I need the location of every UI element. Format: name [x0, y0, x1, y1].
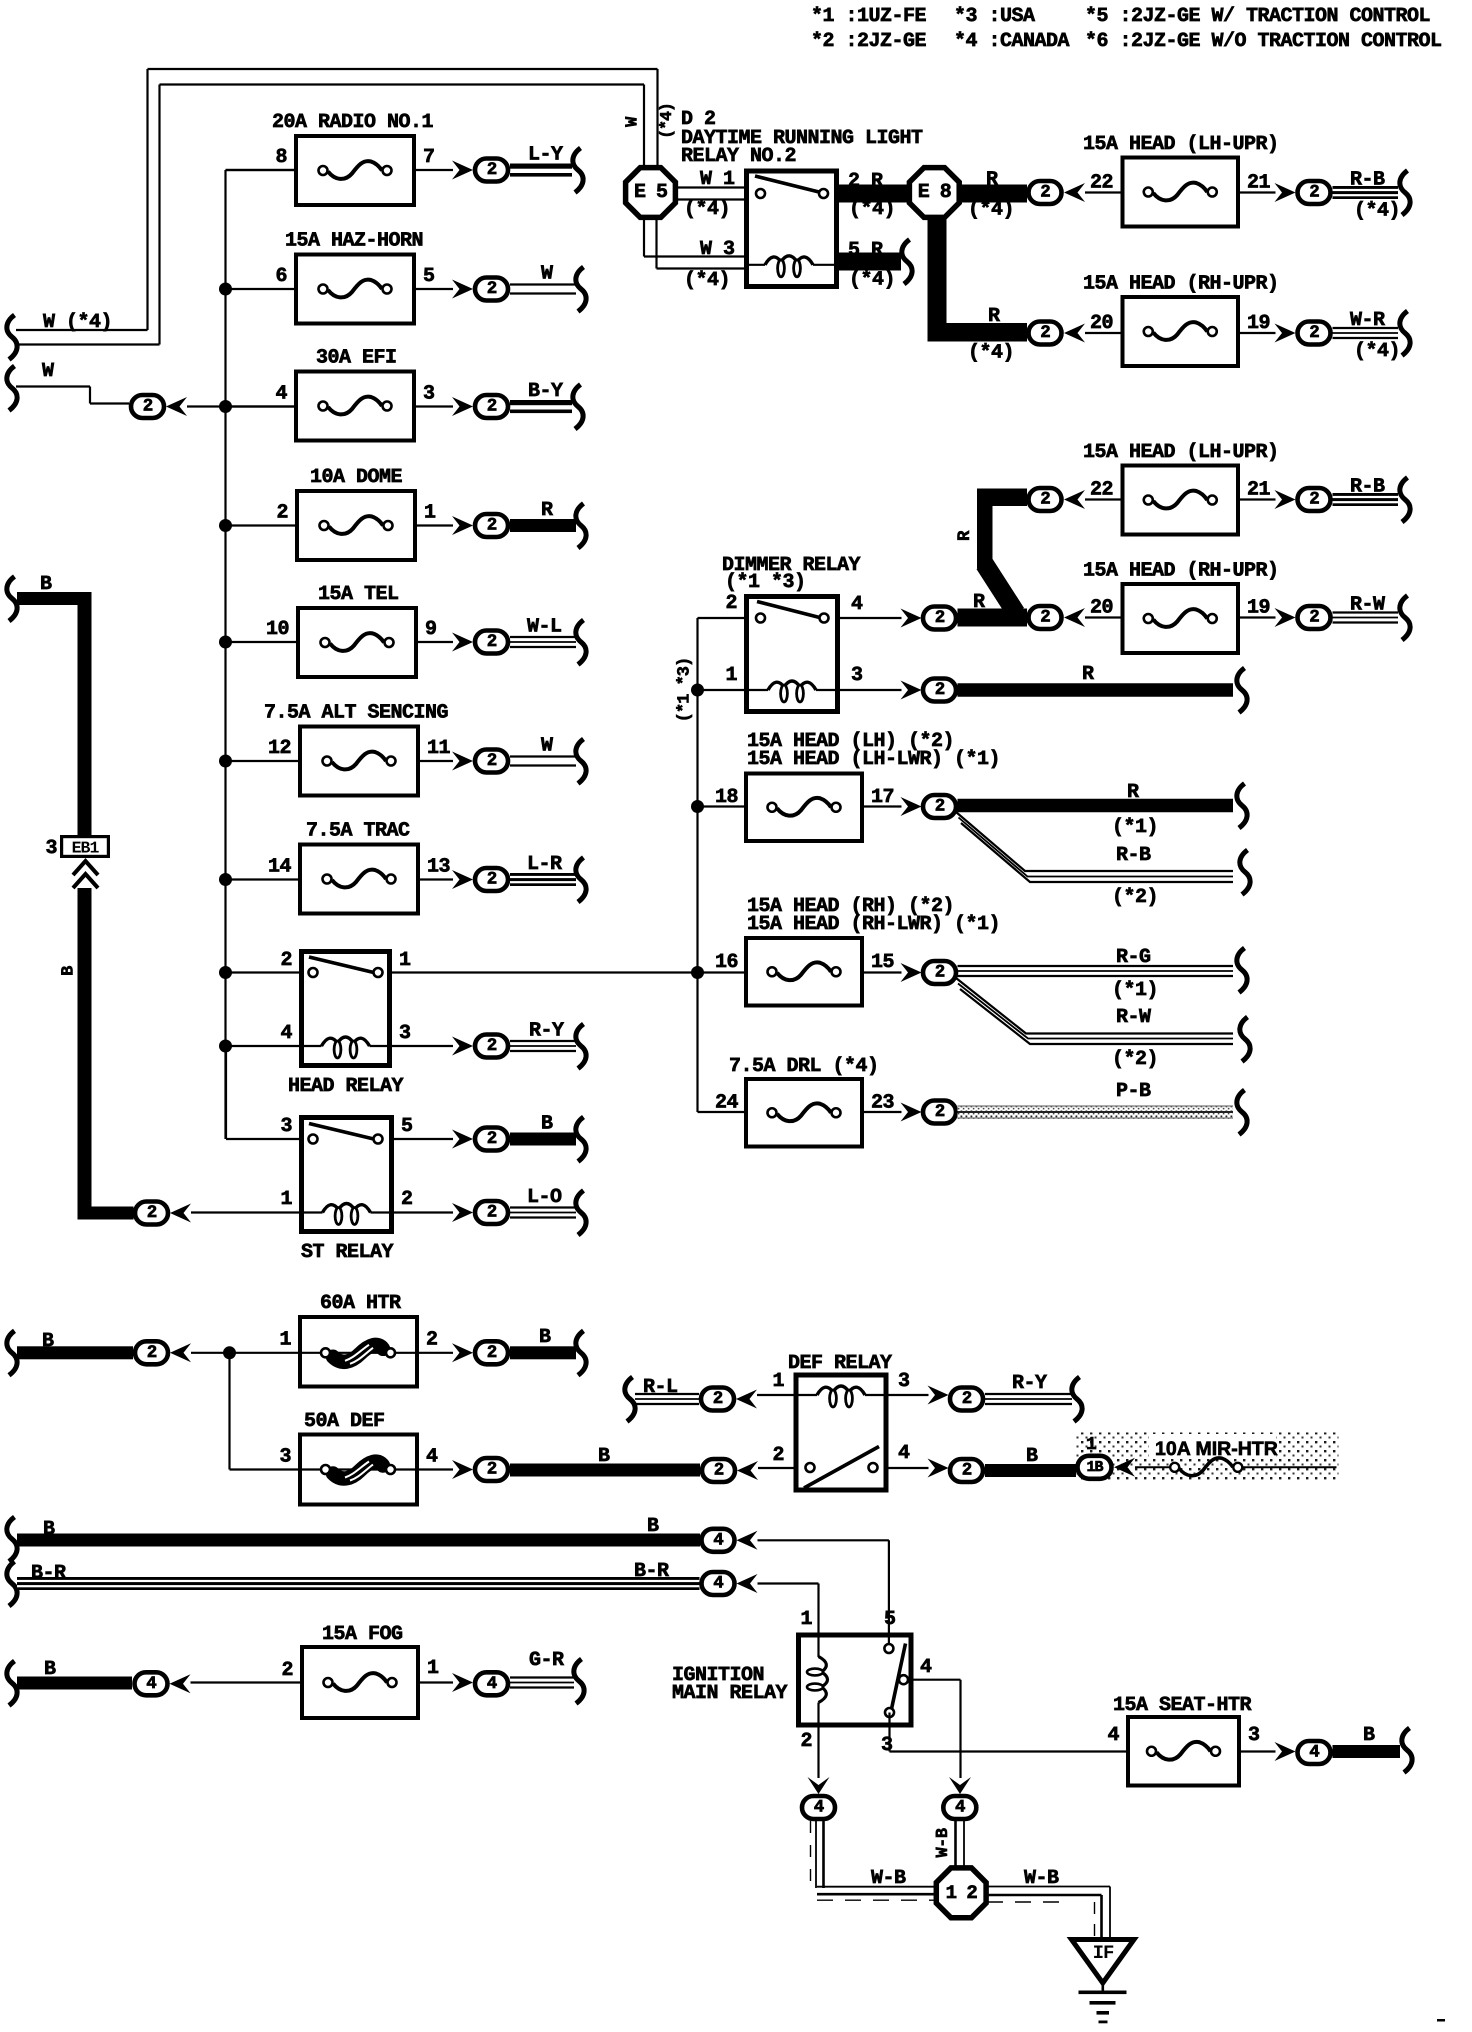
svg-text:(*4): (*4)	[1354, 340, 1400, 363]
svg-text:3: 3	[45, 837, 57, 860]
vertical branch wire (*1 *3)	[696, 618, 698, 1112]
svg-text:3: 3	[851, 664, 863, 687]
half-brace end of P-B wire	[1237, 1090, 1247, 1135]
svg-text:30A EFI: 30A EFI	[316, 347, 397, 370]
relay DAYTIME RUNNING LIGHT RELAY NO.2	[744, 171, 839, 287]
arrow into DEF relay pin2 feed connector	[737, 1461, 758, 1480]
svg-text:MAIN RELAY: MAIN RELAY	[672, 1682, 788, 1705]
wire B from DEF to DEF RELAY connector	[510, 1445, 700, 1477]
svg-text:(*2): (*2)	[1112, 1048, 1158, 1071]
svg-text:2: 2	[276, 502, 288, 525]
half-brace end of 5 R wire	[902, 240, 912, 285]
arrow into B bus connector	[737, 1531, 758, 1550]
wire B from HTR	[510, 1326, 576, 1359]
wire B from ST relay pin 5	[510, 1113, 576, 1146]
svg-text:2: 2	[713, 1389, 723, 1409]
svg-text:*2 :2JZ-GE: *2 :2JZ-GE	[811, 30, 927, 53]
connector 2 (W out)	[475, 278, 508, 301]
connector 2 (B out of ST relay)	[475, 1128, 508, 1151]
svg-text:4: 4	[851, 593, 863, 616]
wire R-Y from DEF RELAY	[985, 1372, 1072, 1404]
svg-text:3: 3	[279, 1446, 291, 1469]
svg-text:*1 :1UZ-FE: *1 :1UZ-FE	[811, 5, 927, 28]
wire dimmer pin 2 to vertical branch	[698, 617, 745, 619]
svg-text:W: W	[541, 735, 553, 758]
half-brace end of W-R wire	[1400, 311, 1410, 356]
junction dot fuse16 row	[691, 966, 704, 979]
wire R from DRL relay pin 5	[839, 239, 901, 292]
wire R-B (*2) branch from fuse 17 connector	[956, 812, 1233, 909]
arrow into connector (R-B)	[1275, 183, 1296, 202]
arrow into connector (fuse17)	[901, 797, 922, 816]
svg-text:15A HEAD (LH-LWR) (*1): 15A HEAD (LH-LWR) (*1)	[747, 748, 1000, 771]
fuse 15A SEAT-HTR	[1107, 1694, 1259, 1786]
relay DIMMER RELAY	[725, 592, 863, 712]
half-brace end of R-B wire	[1400, 171, 1410, 216]
junction dot EFI row	[219, 400, 232, 413]
svg-text:7: 7	[423, 146, 435, 169]
svg-text:2: 2	[935, 963, 945, 983]
svg-text:15A HEAD (LH-UPR): 15A HEAD (LH-UPR)	[1083, 441, 1279, 464]
junction dot DOME row	[219, 519, 232, 532]
svg-text:4: 4	[1107, 1724, 1119, 1747]
wire R from dimmer pin 3	[958, 663, 1234, 697]
wire fuse 17 to connector	[864, 805, 902, 807]
svg-text:R: R	[973, 591, 985, 614]
svg-text:G-R: G-R	[529, 1649, 564, 1672]
svg-text:(*4): (*4)	[1354, 200, 1400, 223]
fuse 15A TEL	[266, 583, 437, 677]
wire arrow to 15A HEAD (RH-UPR) pin	[1085, 616, 1121, 618]
svg-text:IF: IF	[1093, 1942, 1114, 1964]
arrow into 1B connector	[1114, 1458, 1135, 1477]
arrow into connector (G-R)	[452, 1673, 473, 1692]
svg-text:2: 2	[487, 516, 497, 536]
wire 60A HTR out to connector	[419, 1352, 453, 1354]
connector 4 (ignition pin 2)	[802, 1796, 835, 1819]
ghosted fuse 10A MIR-HTR block	[1076, 1433, 1339, 1482]
arrow into connector (R-Y out)	[928, 1386, 949, 1405]
svg-text:4: 4	[280, 1022, 292, 1045]
wire L-Y	[510, 144, 572, 177]
svg-text:16: 16	[715, 951, 738, 974]
svg-text:2: 2	[487, 1129, 497, 1149]
half-brace end of L-Y wire	[573, 148, 583, 193]
svg-text:B-Y: B-Y	[528, 380, 563, 403]
connector 2 (R out)	[475, 514, 508, 537]
ground IF	[1072, 1940, 1135, 2024]
junction EB1	[45, 837, 108, 860]
svg-text:R: R	[541, 499, 553, 522]
wire branch down to fuse 24	[698, 1111, 745, 1113]
svg-text:7.5A DRL (*4): 7.5A DRL (*4)	[729, 1055, 879, 1078]
svg-text:2: 2	[935, 608, 945, 628]
wire B feed into 15A FOG	[7, 1658, 132, 1706]
wire from arrow to ST RELAY pin 1	[191, 1211, 299, 1213]
svg-text:E 8: E 8	[918, 181, 951, 204]
arrow into connector (W-L)	[452, 633, 473, 652]
svg-text:B: B	[60, 966, 79, 976]
arrow into connector (dimmer pin4)	[901, 609, 922, 628]
wire arrow to 15A HEAD (LH-UPR) pin	[1085, 498, 1121, 500]
svg-text:1: 1	[424, 502, 436, 525]
connector 2 (15A HEAD (RH-UPR) feed)	[1029, 606, 1062, 629]
connector 2 (HTR B out)	[475, 1341, 508, 1364]
arrow into connector (B)	[452, 1130, 473, 1149]
svg-text:2: 2	[1309, 608, 1319, 628]
svg-text:*5 :2JZ-GE W/ TRACTION CONTROL: *5 :2JZ-GE W/ TRACTION CONTROL	[1085, 5, 1430, 28]
connector 4 (SEAT B out)	[1298, 1741, 1331, 1764]
connector 2 (15A HEAD (LH-UPR) feed)	[1029, 488, 1062, 511]
wire B-Y	[510, 380, 572, 413]
svg-text:60A HTR: 60A HTR	[320, 1292, 401, 1315]
fuse 15A HEAD (RH) / (RH-LWR)	[715, 895, 1000, 1006]
svg-text:W-B: W-B	[934, 1828, 953, 1857]
wire SEAT-HTR out to connector	[1241, 1750, 1276, 1752]
wire long B bus	[7, 1515, 700, 1562]
fuse 30A EFI	[275, 347, 434, 441]
svg-text:1: 1	[427, 1657, 439, 1680]
fuse 7.5A ALT SENCING	[264, 702, 451, 796]
svg-text:20: 20	[1090, 597, 1113, 620]
svg-text:W-L: W-L	[527, 616, 562, 639]
svg-text:R-Y: R-Y	[1012, 1372, 1047, 1395]
junction dot fuse18 row	[691, 800, 704, 813]
svg-text:*3 :USA: *3 :USA	[954, 5, 1035, 28]
svg-text:R-Y: R-Y	[529, 1020, 564, 1043]
connector 4 (FOG feed)	[135, 1672, 168, 1695]
wire dimmer pin 1 to branch	[698, 689, 745, 691]
wire bus to 10A DOME input	[226, 524, 296, 526]
wire R elbow from LH-UPR feed connector down to RH-UPR feed connector	[977, 489, 1027, 614]
fuse 15A HEAD (RH-UPR)	[1083, 560, 1279, 654]
connector 2 (EFI feed)	[131, 395, 164, 418]
wire R-B	[1333, 169, 1401, 223]
svg-text:1: 1	[280, 1188, 292, 1211]
relay DIMMER RELAY title	[722, 554, 861, 594]
arrow down into connector 4 (pin 4)	[949, 1777, 971, 1794]
wire long B-R bus	[7, 1560, 700, 1606]
svg-text:2: 2	[487, 1343, 497, 1363]
wire R (*1) from fuse 17	[958, 781, 1234, 839]
svg-text:4: 4	[426, 1446, 438, 1469]
connector 2 (DEF B out)	[475, 1458, 508, 1481]
svg-text:15A FOG: 15A FOG	[322, 1623, 403, 1646]
svg-text:15A HEAD (RH-UPR): 15A HEAD (RH-UPR)	[1083, 560, 1279, 583]
svg-text:2: 2	[487, 1460, 497, 1480]
svg-text:2: 2	[1309, 183, 1319, 203]
arrow into connector (W-R)	[1275, 324, 1296, 343]
svg-text:B: B	[539, 1326, 551, 1349]
svg-text:9: 9	[425, 618, 437, 641]
arrow into connector (W)	[452, 280, 473, 299]
svg-text:8: 8	[275, 146, 287, 169]
svg-text:2: 2	[1040, 490, 1050, 510]
wire W from E5 to DRL relay pin 3	[644, 216, 744, 292]
half-brace end of G-R wire	[574, 1659, 584, 1704]
wire L-R	[510, 853, 576, 886]
svg-text:13: 13	[427, 856, 450, 879]
svg-text:ST RELAY: ST RELAY	[301, 1241, 394, 1264]
junction dot dimmer pin1 row	[691, 684, 704, 697]
svg-text:1: 1	[800, 1608, 812, 1631]
svg-text:19: 19	[1247, 597, 1270, 620]
fuse 7.5A DRL (*4)	[715, 1055, 894, 1147]
arrow into 15A HEAD (RH-UPR) feed connector	[1064, 608, 1085, 627]
connector 2 (W-R out)	[1298, 322, 1331, 345]
wire W from E5 pin to DRL relay pin 1	[676, 168, 744, 221]
svg-text:2: 2	[962, 1389, 972, 1409]
svg-text:20: 20	[1090, 312, 1113, 335]
arrow into connector (dimmer pin3 R)	[901, 681, 922, 700]
wire R-W	[1333, 594, 1399, 623]
svg-text:3: 3	[1248, 1724, 1260, 1747]
arrow into connector (fuse15)	[901, 963, 922, 982]
node E5	[626, 168, 676, 218]
svg-text:5: 5	[401, 1115, 413, 1138]
svg-text:50A DEF: 50A DEF	[304, 1410, 385, 1433]
wire from arrow to DEF RELAY pin 2	[758, 1467, 794, 1469]
arrow into EFI feed connector	[166, 397, 187, 416]
half-brace end of R-G wire	[1237, 948, 1247, 993]
arrow into B feed connector	[170, 1204, 191, 1223]
junction dot HEAD RELAY pin4 row	[219, 1040, 232, 1053]
svg-text:21: 21	[1247, 172, 1271, 195]
svg-text:19: 19	[1247, 312, 1270, 335]
wire 50A DEF out to connector	[419, 1468, 453, 1470]
svg-text:B: B	[541, 1113, 553, 1136]
half-brace end of R-W wire	[1240, 1017, 1250, 1062]
wire W from page left to connector 2 feeding 30A EFI	[7, 360, 129, 411]
connector 2 (fuse 17 out)	[923, 795, 956, 818]
wire: main vertical feed bus	[224, 170, 226, 1139]
svg-text:15A HEAD (LH-UPR): 15A HEAD (LH-UPR)	[1083, 133, 1279, 156]
svg-text:3: 3	[881, 1734, 893, 1757]
svg-text:(*4): (*4)	[684, 198, 730, 221]
svg-text:R-B: R-B	[1116, 844, 1151, 867]
svg-text:2: 2	[487, 397, 497, 417]
svg-text:2: 2	[772, 1444, 784, 1467]
svg-text:L-R: L-R	[527, 853, 562, 876]
half-brace end of W wire	[576, 267, 586, 312]
arrow into connector (R-W)	[1275, 608, 1296, 627]
svg-text:2: 2	[401, 1188, 413, 1211]
svg-text:W: W	[624, 116, 643, 127]
half-brace end of SEAT B wire	[1402, 1728, 1412, 1773]
wire R	[510, 499, 576, 532]
junction dot TRAC row	[219, 873, 232, 886]
ghost fuse symbol MIR-HTR	[1135, 1458, 1337, 1476]
svg-text:2: 2	[487, 160, 497, 180]
svg-text:3: 3	[399, 1022, 411, 1045]
svg-text:P-B: P-B	[1116, 1080, 1151, 1103]
half-brace end of R wire	[576, 504, 586, 549]
svg-text:W-B: W-B	[871, 1867, 906, 1890]
connector 2 (L-R out)	[475, 868, 508, 891]
wire bus to HEAD RELAY pin 2	[226, 971, 300, 973]
wire fuse 15 to connector	[864, 971, 902, 973]
svg-text:3: 3	[423, 383, 435, 406]
relay HEAD RELAY	[280, 949, 411, 1098]
wire arrow to 15A HEAD (RH-UPR) pin	[1085, 332, 1121, 334]
svg-text:(*2): (*2)	[1112, 886, 1158, 909]
fuse 15A HEAD (RH-UPR)	[1083, 273, 1279, 367]
svg-text:2: 2	[487, 870, 497, 890]
connector 2 (W out)	[475, 750, 508, 773]
svg-text:10: 10	[266, 618, 289, 641]
svg-text:2: 2	[1040, 183, 1050, 203]
half-brace end of W-L wire	[576, 620, 586, 665]
half-brace end of W wire	[576, 739, 586, 784]
half-brace end of DEF R-Y wire	[1072, 1377, 1082, 1422]
svg-text:15A HEAD (RH-UPR): 15A HEAD (RH-UPR)	[1083, 273, 1279, 296]
svg-text:15A TEL: 15A TEL	[318, 583, 399, 606]
fusible link 50A DEF	[279, 1410, 438, 1505]
wire 20A RADIO NO.1 output to connector	[416, 169, 453, 171]
svg-text:(*1): (*1)	[1112, 979, 1158, 1002]
svg-text:HEAD RELAY: HEAD RELAY	[288, 1075, 404, 1098]
svg-text:2: 2	[935, 797, 945, 817]
wire bus to 7.5A TRAC input	[226, 878, 299, 880]
connector 2 (15A HEAD (RH-UPR) feed)	[1029, 322, 1062, 345]
half-brace end of B wire	[576, 1117, 586, 1162]
svg-text:R: R	[988, 305, 1000, 328]
wire branch to fuse 18	[698, 805, 745, 807]
wire R-B	[1333, 476, 1399, 507]
wire B-R bus to IGNITION MAIN RELAY pin 1	[758, 1584, 819, 1635]
svg-text:4: 4	[713, 1530, 723, 1550]
arrow into 15A HEAD (RH-UPR) feed connector	[1064, 324, 1085, 343]
wire dimmer pin 3 to connector	[840, 689, 902, 691]
svg-text:4: 4	[1309, 1743, 1319, 1763]
wire R from dimmer relay pin 4 connector to RH-UPR feed connector	[958, 591, 1028, 627]
svg-text:(*4): (*4)	[657, 103, 676, 139]
svg-text:2: 2	[281, 1659, 293, 1682]
fuse 10A DOME	[276, 466, 436, 560]
svg-text:2: 2	[714, 1461, 724, 1481]
fuse 15A FOG	[281, 1623, 439, 1718]
wire 15A HEAD (RH-UPR) pin out to connector	[1240, 332, 1276, 334]
connector 2 (L-Y out)	[475, 159, 508, 182]
wire W (*4) from page left up and over to node E5	[7, 69, 658, 360]
svg-text:EB1: EB1	[72, 839, 100, 858]
svg-text:(*1): (*1)	[1112, 816, 1158, 839]
connector 2 (W-L out)	[475, 631, 508, 654]
svg-text:2: 2	[1040, 323, 1050, 343]
arrow into connector (R-Y)	[452, 1037, 473, 1056]
svg-text:7.5A TRAC: 7.5A TRAC	[306, 820, 410, 843]
svg-text:L-O: L-O	[527, 1186, 562, 1209]
wire bus to 20A RADIO pin 8	[226, 169, 295, 171]
page mark bottom right	[1437, 2019, 1445, 2022]
arrow into connector (SEAT B out)	[1275, 1742, 1296, 1761]
fusible link 60A HTR	[279, 1292, 437, 1387]
half-brace end of R-W wire	[1400, 596, 1410, 641]
node ground octagon 1 2	[936, 1868, 986, 1918]
wire bus to 7.5A ALT SENCING input	[226, 760, 299, 762]
connector 2 (R-L feed)	[701, 1388, 734, 1411]
double chevron below EB1	[73, 861, 98, 888]
svg-text:2: 2	[487, 751, 497, 771]
svg-text:10A DOME: 10A DOME	[310, 466, 403, 489]
arrow into connector (L-O)	[452, 1203, 473, 1222]
connector 2 (B to MIR-HTR)	[950, 1459, 983, 1482]
svg-text:4: 4	[713, 1574, 723, 1594]
svg-text:2: 2	[147, 1343, 157, 1363]
svg-text:6: 6	[275, 265, 287, 288]
svg-text:14: 14	[268, 856, 292, 879]
svg-text:4: 4	[146, 1674, 156, 1694]
half-brace end of B-Y wire	[573, 385, 583, 430]
wire from arrow to fusible link 60A HTR	[191, 1352, 298, 1354]
connector 2 (dimmer pin 4)	[923, 607, 956, 630]
svg-text:(*4): (*4)	[968, 342, 1014, 365]
connector 2 (HTR feed)	[135, 1341, 168, 1364]
wire B from DEF RELAY pin 4 to 1B connector	[985, 1445, 1078, 1477]
svg-text:7.5A ALT SENCING: 7.5A ALT SENCING	[264, 702, 449, 725]
arrow into connector (L-R)	[452, 870, 473, 889]
fuse 15A HEAD (LH-UPR)	[1083, 441, 1279, 535]
junction dot ALT row	[219, 755, 232, 768]
connector 4 (B-R bus)	[702, 1572, 735, 1595]
fuse 15A HAZ-HORN	[275, 230, 434, 324]
wire HEAD RELAY pin 1 to fuse 16 row	[392, 971, 744, 973]
arrow into FOG feed connector	[170, 1674, 191, 1693]
junction dot HTR/DEF feed	[223, 1346, 236, 1359]
wire B from SEAT-HTR	[1333, 1724, 1401, 1758]
arrow into connector (B to MIR-HTR)	[928, 1459, 949, 1478]
wire 15A HEAD (RH-UPR) pin out to connector	[1240, 616, 1276, 618]
svg-text:2: 2	[962, 1461, 972, 1481]
connector 2 (B-Y out)	[475, 395, 508, 418]
svg-text:DEF RELAY: DEF RELAY	[788, 1352, 892, 1375]
arrow into connector (L-Y)	[452, 161, 473, 180]
svg-text:2: 2	[487, 1036, 497, 1056]
wire dimmer pin 4 to connector	[840, 617, 902, 619]
junction dot HAZ row	[219, 283, 232, 296]
half-brace end of dimmer R wire	[1237, 668, 1247, 713]
connector 2 (R-B out)	[1298, 488, 1331, 511]
arrow into connector (HTR B out)	[452, 1343, 473, 1362]
wire from arrow to fuse 30A EFI pin 4	[187, 405, 294, 407]
svg-text:R-W: R-W	[1116, 1006, 1151, 1029]
svg-text:R: R	[1082, 663, 1094, 686]
half-brace end of L-R wire	[576, 858, 586, 903]
wire from arrow to DEF RELAY pin 1	[757, 1394, 794, 1396]
junction dot TEL row	[219, 636, 232, 649]
relay IGNITION MAIN RELAY	[799, 1608, 961, 1757]
wire 7.5A ALT SENCING output to connector	[420, 760, 453, 762]
wire W-R	[1333, 309, 1401, 363]
svg-text:20A RADIO NO.1: 20A RADIO NO.1	[272, 111, 434, 134]
svg-text:W: W	[42, 360, 54, 383]
wire 15A HEAD (LH-UPR) pin out to connector	[1240, 498, 1276, 500]
arrow into 15A HEAD (LH-UPR) feed connector	[1064, 183, 1085, 202]
svg-text:R: R	[955, 530, 975, 541]
svg-text:4: 4	[814, 1798, 824, 1818]
arrow into connector (W)	[452, 752, 473, 771]
connector 2 (DEF relay R-Y out)	[950, 1388, 983, 1411]
arrow into B-R bus connector	[737, 1574, 758, 1593]
wire bus to HEAD RELAY pin 4	[226, 1045, 300, 1047]
svg-text:(*4): (*4)	[849, 269, 895, 292]
wire 7.5A TRAC output to connector	[420, 878, 453, 880]
svg-text:E 5: E 5	[634, 181, 667, 204]
wire B bus to IGNITION MAIN RELAY pin 5	[758, 1540, 889, 1634]
arrow into connector (DEF B out)	[452, 1460, 473, 1479]
wire bus down to ST RELAY pin 3	[226, 1046, 299, 1139]
half-brace end of HTR B wire	[576, 1331, 586, 1376]
